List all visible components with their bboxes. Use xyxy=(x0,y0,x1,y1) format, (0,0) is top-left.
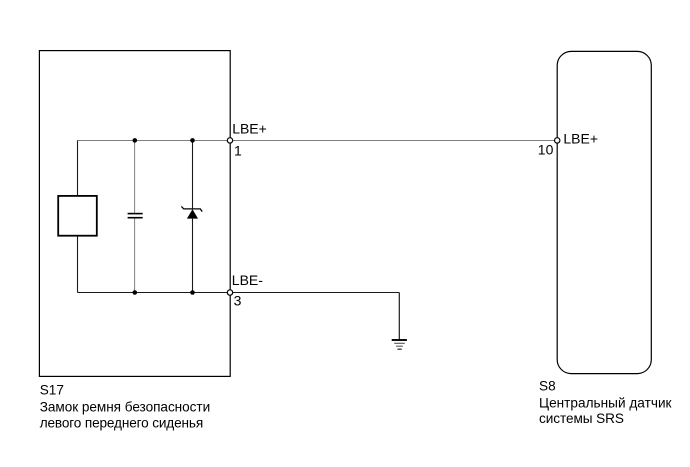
svg-text:10: 10 xyxy=(538,142,554,158)
svg-text:S17: S17 xyxy=(40,382,64,397)
svg-text:1: 1 xyxy=(234,143,242,159)
svg-text:системы SRS: системы SRS xyxy=(539,411,624,426)
svg-text:LBE-: LBE- xyxy=(232,272,263,288)
svg-text:3: 3 xyxy=(234,293,242,309)
svg-text:Замок ремня безопасности: Замок ремня безопасности xyxy=(40,399,211,414)
svg-text:левого переднего сиденья: левого переднего сиденья xyxy=(40,416,204,431)
svg-text:LBE+: LBE+ xyxy=(563,131,598,147)
svg-text:S8: S8 xyxy=(539,378,556,393)
svg-text:LBE+: LBE+ xyxy=(232,120,267,136)
svg-text:Центральный датчик: Центральный датчик xyxy=(539,395,673,410)
